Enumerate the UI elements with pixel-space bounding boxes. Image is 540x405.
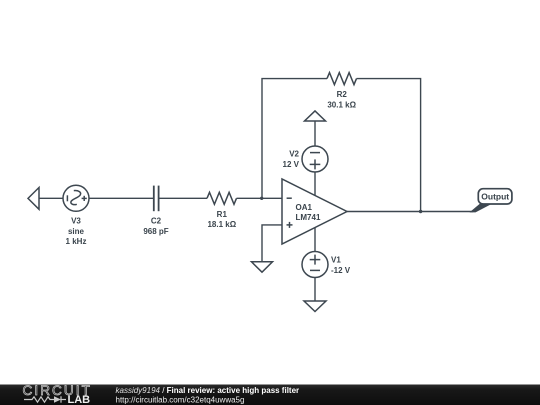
feedback wire right-down to output (357, 79, 421, 212)
svg-text:C2: C2 (151, 217, 162, 226)
source V2 (302, 146, 328, 172)
V2 labels (283, 150, 300, 169)
source V3 (sine) (63, 185, 89, 211)
output terminal flag box (478, 189, 512, 204)
svg-text:1 kHz: 1 kHz (66, 237, 87, 246)
svg-text:18.1 kΩ: 18.1 kΩ (207, 220, 236, 229)
resistor R2 (327, 73, 357, 85)
svg-text:http://circuitlab.com/c32etq4u: http://circuitlab.com/c32etq4uwwa5g (116, 395, 245, 404)
capacitor C2 (154, 186, 159, 212)
op-amp non-inverting input symbol (287, 222, 293, 228)
C2 labels (143, 217, 168, 236)
wire C2 to R1 (159, 197, 207, 199)
wire V3 to C2 (89, 197, 153, 199)
R2 labels (327, 90, 356, 109)
R1 labels (207, 210, 236, 229)
wire input arrow to V3 (39, 197, 63, 199)
svg-text:V2: V2 (289, 150, 299, 159)
svg-text:V1: V1 (331, 256, 341, 265)
ground (V1) (304, 301, 326, 312)
svg-text:30.1 kΩ: 30.1 kΩ (327, 101, 356, 110)
power arrow above V2 (305, 111, 326, 121)
svg-text:968 pF: 968 pF (143, 227, 168, 236)
wire V1 to ground (314, 278, 316, 302)
wire power arrow to V2 (314, 121, 316, 146)
svg-text:R1: R1 (217, 210, 228, 219)
V3 labels (66, 217, 87, 247)
svg-text:kassidy9194 / Final review: ac: kassidy9194 / Final review: active high … (116, 386, 300, 395)
OA1 labels (296, 203, 321, 222)
svg-text:LM741: LM741 (296, 213, 321, 222)
resistor R1 (207, 192, 237, 204)
svg-text:-12 V: -12 V (331, 266, 351, 275)
svg-text:Output: Output (481, 192, 509, 202)
feedback wire up-left (262, 79, 327, 199)
output wire (347, 211, 473, 213)
wire non-inverting input to ground (262, 225, 282, 262)
output flag pointer (470, 204, 493, 213)
svg-text:R2: R2 (337, 90, 348, 99)
svg-text:V3: V3 (71, 217, 81, 226)
node junction (R1 / inverting input / feedback) (260, 197, 263, 200)
svg-text:12 V: 12 V (283, 160, 300, 169)
op-amp inverting input symbol (287, 197, 292, 199)
input terminal arrow (28, 188, 39, 210)
svg-text:sine: sine (68, 227, 85, 236)
node junction (output / feedback) (419, 210, 422, 213)
source V1 (302, 252, 328, 278)
V1 labels (331, 256, 351, 275)
op-amp OA1 triangle (282, 179, 347, 244)
wire op-amp bottom to V1 (314, 227, 316, 252)
svg-text:OA1: OA1 (296, 203, 313, 212)
CircuitLab logo resistor-diode glyph (24, 396, 66, 402)
wire V2 to op-amp top (314, 172, 316, 196)
ground (non-inverting input) (252, 262, 273, 272)
svg-text:LAB: LAB (68, 394, 91, 405)
wire R1 to op-amp inverting input (237, 197, 283, 199)
